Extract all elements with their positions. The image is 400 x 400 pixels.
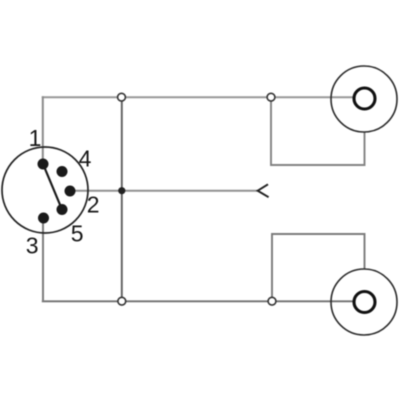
pin 2 dot — [65, 186, 76, 197]
wire top-right shell loop — [271, 97, 365, 165]
wire top bus — [42, 96, 355, 98]
wire bottom-right shell loop — [272, 234, 365, 301]
DIN-5 connector outline — [2, 147, 88, 233]
node C open circle — [118, 297, 126, 305]
wire from pin 2 — [70, 190, 258, 192]
pin 4 dot — [57, 166, 68, 177]
open wire end fork — [258, 184, 269, 197]
svg-text:2: 2 — [87, 192, 100, 218]
wire left vertical from pin 3 — [42, 218, 44, 301]
node B open circle — [267, 93, 275, 101]
svg-text:3: 3 — [26, 232, 39, 258]
link pin1-pin5 — [43, 164, 62, 210]
node A open circle — [118, 93, 126, 101]
junction dot — [118, 187, 125, 194]
pin 5 dot — [57, 204, 68, 215]
svg-text:1: 1 — [29, 125, 42, 151]
RCA plug J2 tip — [354, 292, 375, 313]
pin 3 dot — [38, 213, 49, 224]
svg-text:5: 5 — [71, 221, 84, 247]
node D open circle — [268, 297, 276, 305]
RCA plug J2 shell — [331, 269, 397, 335]
svg-text:4: 4 — [79, 146, 92, 172]
pin 1 dot — [38, 159, 49, 170]
RCA plug J1 shell — [331, 66, 397, 132]
wire middle vertical — [121, 97, 123, 301]
wire left vertical to pin 1 — [42, 96, 44, 164]
wire bottom bus — [42, 300, 355, 302]
RCA plug J1 tip — [354, 88, 375, 109]
